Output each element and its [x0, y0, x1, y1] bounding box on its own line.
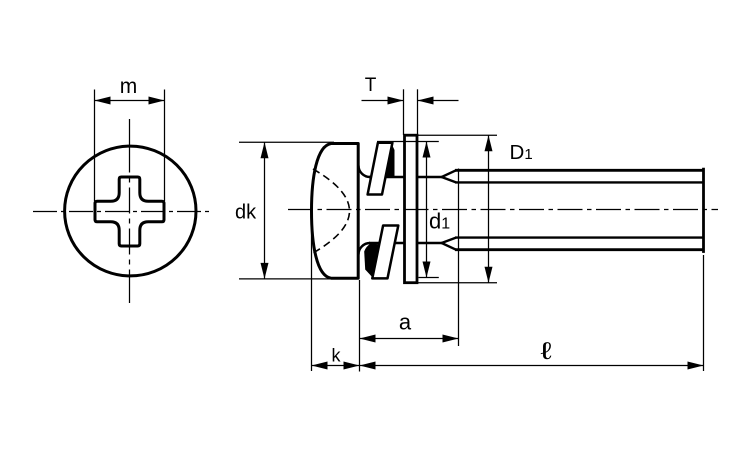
phillips recess cross outline — [95, 177, 164, 246]
thread root bottom line — [455, 236, 704, 238]
thread start top chamfer — [442, 170, 456, 182]
thread start bottom chamfer — [442, 238, 456, 250]
svg-text:m: m — [120, 75, 138, 98]
svg-text:a: a — [399, 310, 412, 335]
dimension dk extension lines — [239, 141, 334, 143]
dimension D1 line with arrows — [488, 135, 490, 283]
front view: screw head circle — [65, 146, 196, 276]
svg-text:dk: dk — [235, 202, 257, 224]
dimension dk line with arrows — [264, 142, 266, 279]
svg-text:k: k — [332, 346, 342, 366]
hidden recess dashed arc — [313, 169, 350, 253]
dimension m line with arrows — [95, 100, 165, 102]
spring washer lower black section — [364, 244, 379, 278]
dimension T extension lines — [403, 89, 405, 135]
spring washer upper black section — [385, 144, 395, 178]
shank top line — [369, 176, 442, 178]
front view vertical centerline — [129, 119, 131, 147]
spring washer lower cut face — [372, 226, 398, 279]
thread OD top line — [455, 169, 704, 172]
dimension k extension line left — [311, 210, 313, 371]
dimension l line with arrows — [360, 365, 704, 367]
dimension l extension line right — [703, 255, 705, 371]
svg-text:ℓ: ℓ — [541, 338, 553, 364]
flat washer — [405, 135, 418, 283]
svg-text:T: T — [365, 75, 377, 96]
thread end cap — [702, 168, 705, 253]
dimension k line with arrows — [312, 365, 360, 367]
under-head fillet top — [359, 166, 371, 178]
dimension a extension line — [458, 169, 460, 347]
thread root top line — [455, 181, 704, 183]
under-head fillet bottom — [359, 243, 371, 255]
dimension D1 extension lines — [417, 134, 497, 136]
side view: pan head — [312, 144, 359, 279]
screw axis centerline — [288, 209, 718, 211]
head bearing face extension line — [359, 280, 361, 372]
front view horizontal centerline — [33, 211, 211, 213]
dimension d1 extension lines — [377, 141, 439, 143]
dimension d1 line with arrows — [426, 142, 428, 278]
dimension a line with arrows — [360, 338, 459, 340]
spring washer upper cut face — [368, 143, 393, 195]
dimension m extension lines — [94, 90, 96, 202]
thread OD bottom line — [455, 248, 704, 251]
dimension T line right segment — [418, 100, 459, 102]
shank bottom line — [369, 242, 442, 244]
dimension T line left segment — [362, 100, 404, 102]
